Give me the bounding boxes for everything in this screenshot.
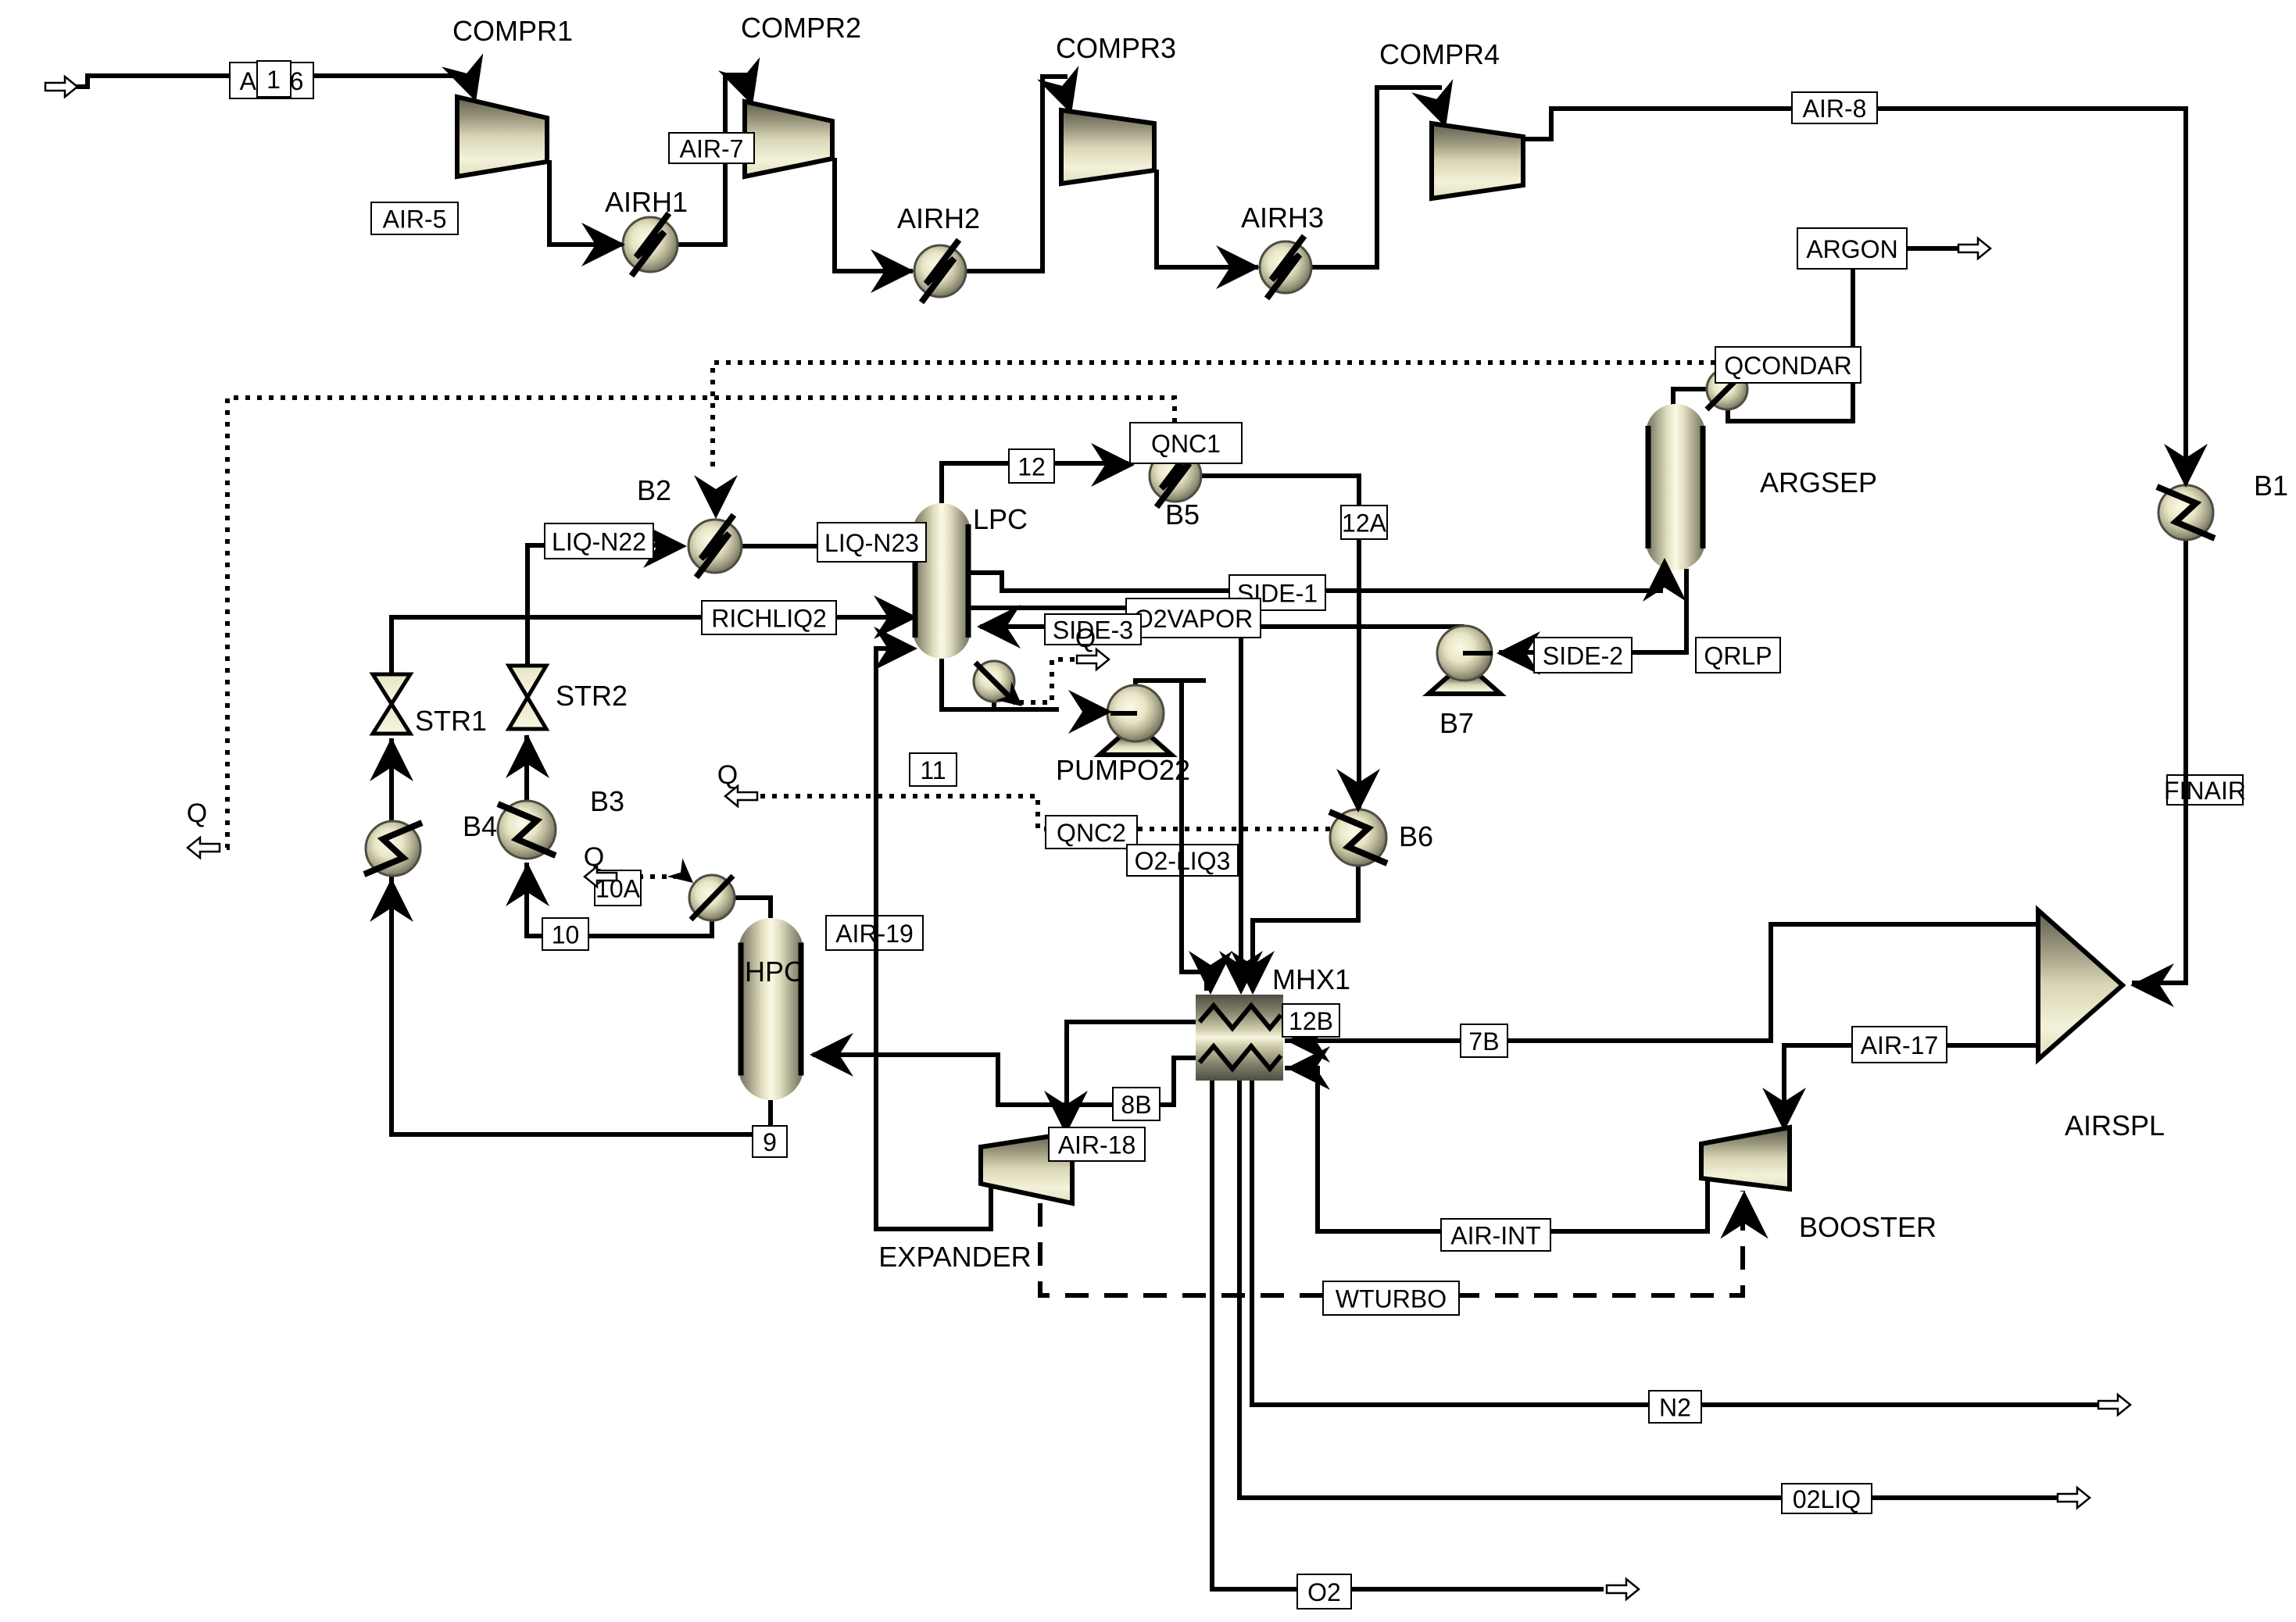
arrowhead into AIRH2 (871, 249, 914, 293)
heat exchanger B2 (688, 515, 742, 577)
arrowhead into PUMPO22 (1068, 690, 1112, 734)
label box FINAIR (2164, 775, 2246, 805)
heat exchanger B6 (1329, 809, 1387, 866)
wire condenser to ARGON label (1728, 269, 1853, 421)
svg-text:COMPR2: COMPR2 (741, 12, 861, 44)
wire HPC bottoms 9 to STR1 branch (392, 877, 771, 1134)
svg-text:LIQ-N22: LIQ-N22 (552, 528, 646, 556)
label box 1 (feed stream) (257, 61, 291, 97)
svg-text:ARGSEP: ARGSEP (1760, 466, 1877, 498)
label box QNC2 (1046, 816, 1137, 849)
arrowhead into MHX1 top 2 (1219, 951, 1263, 995)
pump B7 (1429, 626, 1500, 694)
svg-text:9: 9 (763, 1128, 777, 1156)
open arrow Q QNC1 (188, 838, 220, 858)
label box QNC1 (1130, 423, 1242, 463)
wire heat QNC2 dotted (749, 796, 1330, 829)
svg-text:12: 12 (1017, 453, 1046, 481)
heat exchanger B4 (498, 801, 556, 859)
wire AIRSPL to 7B to MHX1 (1285, 924, 2053, 1041)
svg-text:O2VAPOR: O2VAPOR (1134, 605, 1253, 633)
svg-text:AIR-17: AIR-17 (1861, 1031, 1939, 1059)
arrowhead into LPC RICHLIQ2 (874, 595, 917, 639)
wire EXPANDER outlet AIR-19 to LPC (876, 648, 991, 1229)
arrowhead into ARGSEP (1643, 558, 1686, 602)
heat exchanger B1 (2157, 485, 2215, 540)
open arrow ARGON product (1958, 238, 1990, 259)
compressor/turbine COMPR3 (1061, 110, 1154, 184)
svg-text:N2: N2 (1659, 1394, 1691, 1422)
column LPC (913, 503, 971, 659)
svg-text:LPC: LPC (973, 503, 1028, 535)
heat exchanger HPC condenser (689, 875, 735, 920)
svg-text:STR2: STR2 (556, 680, 628, 712)
svg-text:COMPR4: COMPR4 (1379, 38, 1500, 70)
svg-text:QNC2: QNC2 (1057, 819, 1126, 847)
valve STR1 (373, 674, 410, 734)
arrowhead into HPC condenser (667, 858, 701, 891)
heat exchanger AIRH1 (623, 213, 678, 276)
valve STR2 (509, 666, 546, 729)
wire ARGSEP top to condenser (1673, 389, 1708, 405)
compressor/turbine COMPR4 (1432, 123, 1523, 198)
label box WTURBO (1323, 1281, 1459, 1315)
arrowhead into B6 (1336, 769, 1380, 813)
svg-text:AIR-5: AIR-5 (383, 205, 447, 234)
svg-text:Q: Q (584, 842, 604, 872)
svg-text:B1: B1 (2254, 470, 2288, 502)
heat exchanger cooler B8 (364, 821, 422, 876)
svg-text:Q: Q (187, 798, 207, 828)
wire AIRH3 to COMPR4 (1311, 88, 1442, 267)
svg-text:12A: 12A (1342, 509, 1387, 538)
wire B5 to 12A to B6 (1201, 476, 1359, 811)
svg-text:O2: O2 (1307, 1578, 1341, 1606)
wire LPC bottoms to pump (942, 659, 1059, 709)
label box 7B (1461, 1024, 1507, 1057)
svg-text:AIRH2: AIRH2 (897, 202, 980, 234)
svg-text:QNC1: QNC1 (1151, 430, 1221, 458)
label box AIR-18 (1049, 1127, 1145, 1161)
label box AIR-17 (1852, 1027, 1947, 1063)
wire B4 to STR2 (524, 735, 529, 802)
open arrow O2 product (1607, 1579, 1639, 1599)
wire COMPR4 outlet AIR-8 (1523, 109, 2186, 486)
wire heat 10A dotted (603, 874, 675, 879)
pump PUMPO22 (1100, 685, 1171, 755)
arrowhead into LPC AIR-19 (874, 627, 917, 670)
label box O2-LIQ3 (1127, 845, 1238, 876)
label box N2 (1649, 1391, 1701, 1423)
open arrow N2 product (2098, 1395, 2130, 1415)
svg-text:12B: 12B (1289, 1007, 1333, 1035)
label box RICHLIQ2 (702, 601, 836, 634)
label box 9 (753, 1126, 787, 1157)
wire STR1 to RICHLIQ2 to LPC (392, 617, 911, 674)
wire COMPR3 outlet (1157, 170, 1258, 267)
wire HPC heater to HPC top (733, 898, 771, 918)
arrowhead into cooler B8 (370, 878, 413, 922)
compressor/turbine BOOSTER (1701, 1127, 1790, 1189)
label box QRLP (1696, 638, 1780, 673)
arrowhead into STR1 (370, 738, 413, 781)
label box 11 (910, 753, 957, 786)
wire AIRSPL to AIR-17 to BOOSTER (1784, 1045, 2041, 1130)
arrowhead into B2 top (694, 475, 738, 519)
label box ARGON (1797, 228, 1907, 269)
heat exchanger LPC reboiler (974, 661, 1014, 702)
wire heater to STR1 (389, 738, 394, 822)
svg-text:COMPR1: COMPR1 (452, 15, 573, 47)
multistream heat exchanger MHX1 (1196, 995, 1283, 1081)
wire stream 10 (527, 863, 712, 936)
wire pump discharge stub (1135, 681, 1206, 687)
label box O2VAPOR (1126, 598, 1261, 638)
svg-text:8B: 8B (1121, 1091, 1151, 1119)
svg-text:PUMPO22: PUMPO22 (1056, 754, 1190, 786)
label box LIQ-N23 (817, 523, 926, 562)
svg-text:MHX1: MHX1 (1272, 963, 1350, 995)
svg-text:1: 1 (266, 66, 281, 94)
arrowhead into B1 (2164, 444, 2208, 488)
arrowhead into LPC SIDE-3 (977, 605, 1021, 648)
arrowhead into AIRSPL (2130, 963, 2174, 1007)
arrowhead into COMPR4 (1411, 79, 1467, 134)
wire BOOSTER outlet AIR-INT (1285, 1068, 1708, 1231)
label box 10A (595, 870, 641, 906)
arrowhead into B2 left (643, 524, 687, 568)
wire LPC SIDE-1 to ARGSEP (971, 573, 1663, 591)
column HPC (739, 918, 803, 1100)
arrowhead from LPC reboiler (996, 681, 1030, 715)
label box SIDE-3 (1045, 614, 1141, 645)
label box AIR-19 (826, 916, 923, 950)
svg-text:B6: B6 (1399, 820, 1433, 852)
svg-text:Q: Q (1075, 623, 1096, 653)
wire heat QCONDAR dotted (713, 363, 1715, 473)
wire MHX1 8B to HPC (813, 1055, 1196, 1105)
arrowhead into COMPR1 (442, 53, 497, 109)
svg-text:AIR-8: AIR-8 (1803, 95, 1867, 123)
svg-text:HPC: HPC (745, 956, 804, 988)
arrowhead into BOOSTER top (1762, 1088, 1806, 1131)
arrowhead into COMPR3 (1037, 66, 1093, 121)
svg-text:AIRSPL: AIRSPL (2065, 1109, 2165, 1141)
wire ARGON product (1907, 246, 1963, 251)
slash of QCONDAR condenser (1707, 369, 1747, 409)
svg-text:COMPR3: COMPR3 (1056, 32, 1176, 64)
label box 12 (1009, 449, 1054, 483)
compressor/turbine COMPR2 (745, 102, 832, 177)
svg-text:WTURBO: WTURBO (1336, 1285, 1447, 1313)
svg-text:AIRH1: AIRH1 (605, 186, 688, 218)
open arrow feed (45, 77, 77, 97)
label box SIDE-1 (1229, 575, 1325, 610)
wire AIRH1 to COMPR2 AIR-7 (677, 75, 749, 245)
wire COMPR1 outlet AIR-5 (549, 160, 625, 245)
wire B6 to MHX1 (1253, 866, 1358, 991)
svg-text:7B: 7B (1468, 1027, 1499, 1056)
slash of LPC reboiler (975, 663, 1016, 703)
wire LPC O2VAPOR to MHX1 (971, 608, 1241, 991)
open arrow Q 10A (585, 866, 617, 887)
label box SIDE-2 (1534, 638, 1632, 673)
arrowhead into EXPANDER (1044, 1091, 1088, 1134)
wire B2 to LIQ-N23 to LPC (742, 544, 913, 548)
wire LPC top stream 12 (942, 463, 1128, 503)
open arrow 02LIQ product (2058, 1488, 2090, 1508)
label box LIQ-N22 (545, 523, 653, 559)
arrowhead into AIRH3 (1216, 245, 1260, 289)
arrowhead into STR2 (506, 734, 549, 778)
wire AIRH2 to COMPR3 (966, 77, 1068, 271)
arrowhead into AIRH1 (581, 223, 625, 266)
wire MHX1 02LIQ product (1239, 1081, 2069, 1498)
label box O2 (1297, 1574, 1351, 1609)
arrowhead into B4 (506, 863, 549, 906)
wire reboiler drain stub (992, 700, 996, 709)
svg-text:RICHLIQ2: RICHLIQ2 (711, 605, 827, 633)
svg-text:BOOSTER: BOOSTER (1799, 1211, 1937, 1243)
arrowhead into HPC (810, 1033, 853, 1077)
wire ARGSEP bottoms SIDE-2 to B7 (1499, 569, 1686, 652)
wire heat QNC1 dotted (223, 398, 1175, 848)
svg-text:LIQ-N23: LIQ-N23 (824, 529, 919, 557)
label box 10 (542, 918, 588, 950)
open arrow Q LPC (1077, 649, 1109, 670)
open arrow Q QNC2 (725, 786, 757, 806)
svg-text:B5: B5 (1165, 498, 1200, 531)
label box AIR-INT (1441, 1219, 1550, 1251)
wire MHX1 O2 product (1212, 1081, 1604, 1589)
label box 02LIQ (1782, 1484, 1872, 1513)
svg-text:EXPANDER: EXPANDER (878, 1241, 1031, 1273)
label box AIR-8 (1792, 92, 1877, 123)
wire MHX1 to expander (1067, 1022, 1196, 1130)
heat exchanger B5 (1150, 445, 1201, 507)
arrowhead into MHX1 top 3 (1231, 951, 1275, 995)
arrowhead into MHX1 right 7B (1286, 1019, 1330, 1063)
svg-text:ARGON: ARGON (1806, 235, 1897, 263)
wire B7 inlet into center (1463, 651, 1493, 656)
label box 12A (1341, 506, 1387, 539)
wire O2-LIQ3 over box (1179, 845, 1184, 876)
svg-text:AIRH3: AIRH3 (1241, 202, 1324, 234)
compressor/turbine EXPANDER (981, 1133, 1072, 1203)
svg-text:AIR-7: AIR-7 (680, 135, 744, 163)
heat exchanger AIRH2 (914, 240, 966, 302)
label box QCONDAR (1715, 347, 1861, 383)
label box AIR-5 (371, 202, 458, 234)
label box AIR-6 (230, 63, 313, 98)
wire work stream WTURBO (1040, 1191, 1743, 1295)
wire feed AIR-6 (77, 76, 469, 87)
svg-text:Q: Q (717, 760, 738, 790)
label box AIR-7 (669, 133, 754, 163)
svg-text:AIR-18: AIR-18 (1058, 1131, 1136, 1159)
svg-text:B4: B4 (463, 810, 497, 842)
wire heat LPC reboiler dotted (1019, 659, 1085, 702)
svg-text:B3: B3 (590, 785, 624, 817)
arrowhead into MHX1 right AIR-INT (1286, 1046, 1330, 1090)
svg-text:B7: B7 (1439, 707, 1474, 739)
wire pump discharge O2-LIQ3 to MHX1 (1182, 681, 1207, 991)
wire B7 SIDE-3 to LPC (980, 624, 1465, 629)
wire pump inlet into center (1110, 711, 1137, 716)
svg-text:FINAIR: FINAIR (2164, 777, 2246, 805)
svg-text:AIR-INT: AIR-INT (1450, 1222, 1541, 1250)
arrowhead into B7 (1497, 631, 1540, 675)
label box 8B (1113, 1088, 1160, 1120)
svg-text:10: 10 (552, 921, 580, 949)
heat exchanger condenser QCONDAR (1707, 369, 1747, 409)
svg-text:QRLP: QRLP (1704, 642, 1772, 670)
compressor/turbine COMPR1 (457, 97, 547, 177)
wire B1 outlet FINAIR (2132, 539, 2186, 983)
arrowhead into BOOSTER bottom (1720, 1191, 1768, 1239)
slash of HPC condenser (691, 876, 733, 920)
label box 12B (1282, 1004, 1339, 1037)
svg-text:QCONDAR: QCONDAR (1724, 352, 1852, 380)
arrowhead into B5 (1091, 443, 1135, 487)
column ARGSEP (1646, 404, 1705, 570)
arrowhead into COMPR2 (718, 57, 774, 113)
arrowhead into MHX1 top 1 (1189, 951, 1232, 995)
wire FINAIR over box (2183, 775, 2188, 805)
splitter AIRSPL (2038, 910, 2123, 1059)
svg-text:11: 11 (920, 756, 946, 784)
svg-text:STR1: STR1 (415, 705, 487, 737)
svg-text:SIDE-2: SIDE-2 (1543, 642, 1623, 670)
wire STR2 to LIQ-N22 to B2 (528, 545, 681, 666)
heat exchanger AIRH3 (1260, 236, 1311, 298)
svg-text:B2: B2 (637, 474, 671, 506)
wire COMPR2 outlet (835, 158, 913, 271)
wire MHX1 N2 product (1252, 1081, 2110, 1405)
wire AIR-19 over box (874, 916, 878, 950)
svg-text:02LIQ: 02LIQ (1793, 1485, 1861, 1513)
